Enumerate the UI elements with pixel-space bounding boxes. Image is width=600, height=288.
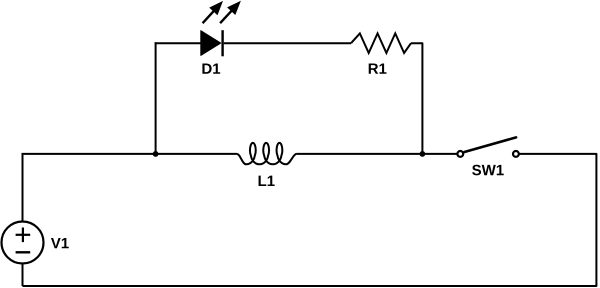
wire main horizontal (LED branch node to inductor) (156, 153, 237, 155)
wire LED branch vertical (155, 42, 157, 154)
wire main horizontal (V1 column to LED branch node) (23, 154, 156, 155)
label R1 (369, 63, 387, 73)
wire main horizontal switch to right corner, down and along bottom (23, 154, 597, 286)
LED D1 (201, 30, 223, 56)
LED D1 light arrow 2 (220, 1, 241, 24)
switch SW1 (457, 137, 518, 156)
label D1 (202, 63, 220, 73)
label V1 (51, 238, 69, 248)
node junction at R1 branch (420, 151, 426, 157)
wire top branch left (corner to LED anode) (156, 43, 202, 44)
inductor L1 (237, 143, 296, 164)
label L1 (259, 176, 275, 186)
wire main horizontal (R1 branch node to switch) (422, 153, 457, 155)
wire main horizontal (inductor to R1 branch node) (296, 153, 422, 155)
voltage source V1 (2, 222, 44, 264)
resistor R1 (351, 33, 411, 53)
node junction at LED branch (153, 151, 159, 157)
wire top branch middle (LED cathode to resistor) (224, 42, 351, 44)
wire V1 bottom vertical (22, 263, 24, 286)
LED D1 light arrow 1 (203, 1, 223, 23)
wire top branch right (resistor to corner down to node) (411, 43, 422, 154)
wire left vertical (main wire down to V1 top) (22, 154, 24, 222)
label SW1 (472, 165, 504, 176)
